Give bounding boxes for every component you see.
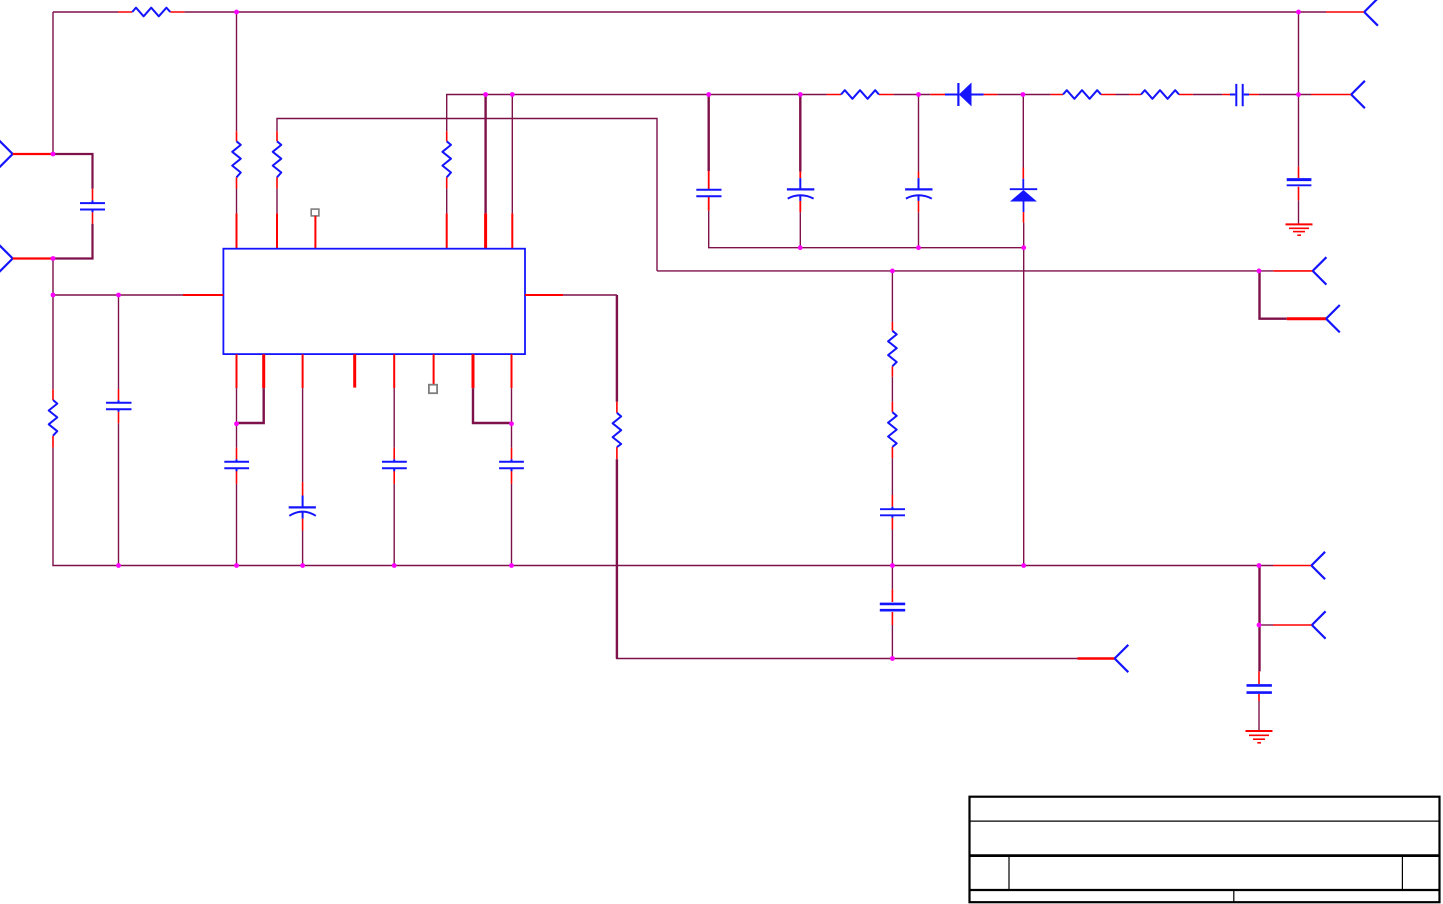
pin red thick IC bottom pin4 floating xyxy=(353,354,356,387)
node dot (118.5,565.5) xyxy=(116,563,121,568)
wire C4 bottom to rail corner xyxy=(709,211,801,248)
node dot (1298.5,94.5) xyxy=(1296,92,1301,97)
wire vertical x=1022.9 from net to D2 xyxy=(1022,95,1024,168)
title block line thick xyxy=(970,854,1440,857)
capacitor C10 at x=394.2 xyxy=(382,448,407,484)
capacitor C1 left xyxy=(80,189,105,224)
port P6 right xyxy=(1312,611,1326,638)
node dot (892.4,565.5) xyxy=(890,563,895,568)
wire corner x=446.7 start of net y=94.5 xyxy=(447,95,827,132)
terminal square bottom of IC pin6 xyxy=(429,385,437,394)
pin red IC right xyxy=(525,294,563,296)
pin red IC bottom pin3 xyxy=(302,354,304,388)
capacitor C9 polarized at x=302.6 xyxy=(289,482,316,530)
wire thick R9 down corner to net y=658.5 xyxy=(616,459,618,658)
wire stub y=625 xyxy=(1259,624,1273,626)
wire C9 down to rail xyxy=(302,531,304,566)
pin red to port P2 right y=94.5 xyxy=(1311,94,1351,96)
op-amp IC U1 body xyxy=(223,249,525,354)
node dot (236.5,12) xyxy=(234,10,239,15)
node dot (918.5,94.5) xyxy=(916,92,921,97)
node dot (1023.7,247.7) xyxy=(1021,245,1026,250)
node dot (53,154) xyxy=(51,152,56,157)
port J1 left upper xyxy=(0,140,13,167)
pin red IC bottom pin6 xyxy=(433,354,435,384)
resistor R7 horizontal y=94.5 xyxy=(1129,90,1193,99)
wire R2 to pin stub xyxy=(236,189,238,214)
pin red to port P5 y=565.5 xyxy=(1273,565,1311,567)
pin red to port P1 top right xyxy=(1326,11,1364,13)
wire x=892.4 from net y=270.9 to R10 xyxy=(891,271,893,322)
node dot (892.4,658.5) xyxy=(890,656,895,661)
wire thick pin7 L to node xyxy=(473,388,512,423)
title block divider v2 xyxy=(1401,856,1403,890)
node dot (1259,565.5) xyxy=(1257,563,1262,568)
pin wire red J2 xyxy=(13,257,53,259)
wire rail y=247.7 xyxy=(800,247,1024,249)
title block outer frame xyxy=(970,797,1440,903)
pin red thick IC bottom pin7 xyxy=(472,354,475,388)
capacitor C2 series horizontal y=94.5 xyxy=(1222,84,1259,106)
port P4 right xyxy=(1326,305,1340,332)
node dot (800.2,247.7) xyxy=(798,245,803,250)
wire C8 down to rail xyxy=(236,484,238,566)
pin red thick IC bottom pin2 xyxy=(262,354,265,388)
node dot (511.5,565.5) xyxy=(509,563,514,568)
capacitor C6 polarized at x=918.5 xyxy=(905,172,932,213)
node dot (800.3,94.5) xyxy=(798,92,803,97)
capacitor C11 below node x=511.5 xyxy=(499,424,524,484)
title block divider v1 xyxy=(1008,856,1010,890)
capacitor C7 at x=118.5 xyxy=(106,389,132,423)
resistor R11 vertical xyxy=(888,402,897,459)
node dot (53,258.5) xyxy=(51,256,56,261)
wire x=53 from J2 down xyxy=(52,259,54,296)
wire C1 bottom to node B xyxy=(53,224,93,259)
wire R3 to pin stub xyxy=(276,189,278,214)
wire IC right pin to corner x=617 xyxy=(563,294,617,296)
pin red IC top pin6 xyxy=(511,213,513,248)
wire D2 to junction and down to rail xyxy=(1023,223,1025,566)
capacitor C4 at x=708.7 xyxy=(696,171,721,211)
wire C14 down to ground xyxy=(1258,701,1260,731)
pin red to port P3 y=270.9 xyxy=(1273,270,1312,272)
ground GND1 xyxy=(1286,224,1313,235)
wire net y=658.5 xyxy=(616,658,1078,660)
wire R4 to pin stub xyxy=(446,189,448,214)
port J2 left lower xyxy=(0,245,13,272)
title block line row3 xyxy=(970,889,1440,891)
capacitor C5 polarized at x=800.3 xyxy=(787,172,814,213)
pin red IC top pin4 xyxy=(446,213,448,248)
node dot (512.3,94.5) xyxy=(510,92,515,97)
wire net y=94.5 segments xyxy=(893,94,1311,96)
wire C6 bottom to rail xyxy=(918,212,920,248)
wire R8 down to rail corner xyxy=(53,448,119,566)
ground rail y=565.5 xyxy=(119,565,1274,567)
node dot (511.5,423.8) xyxy=(509,421,514,426)
node dot (892.4,270.9) xyxy=(890,269,895,274)
wire x=236 from top net to R2 xyxy=(236,12,238,131)
node dot (485.6,94.5) xyxy=(483,92,488,97)
resistor R6 horizontal y=94.5 xyxy=(1050,90,1115,99)
pin red thick IC top pin5 xyxy=(484,213,487,248)
wire thick pin2 L to node xyxy=(237,388,264,423)
wire x=53 down to resistor R8 xyxy=(52,295,54,389)
wire vertical x=53 top-left xyxy=(52,12,54,154)
pin red thick to port P4 y=318.7 xyxy=(1287,317,1326,320)
wire C10 down to rail xyxy=(393,484,395,566)
pin red IC bottom pin1 xyxy=(236,354,238,388)
node dot (236.5,565.5) xyxy=(234,563,239,568)
wire thick from node y=270.9 down to y=318.7 xyxy=(1260,271,1287,319)
wire x=118.5 down to capacitor C7 xyxy=(118,295,120,389)
node dot (118.5,295) xyxy=(116,293,121,298)
node dot (1298.5,12) xyxy=(1296,10,1301,15)
pin red IC top pin3 xyxy=(314,216,316,249)
wire x=1259 node down to C14 xyxy=(1258,625,1260,671)
resistor R1 horizontal top-left xyxy=(118,8,184,17)
resistor R5 horizontal y=94.5 xyxy=(827,90,894,99)
capacitor C14 thick at x=1259 xyxy=(1247,671,1272,701)
wire C13 down to net y=658.5 xyxy=(891,625,893,659)
wire C11 down to rail xyxy=(511,484,513,566)
ground GND2 xyxy=(1246,731,1273,743)
wire vertical x=918.5 xyxy=(918,95,920,172)
node dot (1259,270.9) xyxy=(1257,269,1262,274)
node dot (918.5,247.7) xyxy=(916,245,921,250)
terminal square top of IC pin3 xyxy=(311,209,319,216)
resistor R9 vertical at x=617 xyxy=(613,402,622,460)
wire thick vertical x=617 xyxy=(616,295,618,402)
node dot (1259,625) xyxy=(1257,623,1262,628)
wire R11 down to C12 xyxy=(891,458,893,495)
wire pin5 down to C10 xyxy=(393,388,395,448)
capacitor C12 at x=892.4 xyxy=(880,495,905,530)
port P7 middle right xyxy=(1115,645,1129,672)
wire x=512.3 IC top pin6 to net xyxy=(511,95,513,214)
pin red to port P7 y=658.5 xyxy=(1078,657,1115,659)
wire C3 to ground xyxy=(1298,200,1300,224)
pin red IC top pin1 xyxy=(236,213,238,248)
wire corner x=277 net y=118.5 xyxy=(277,119,657,271)
pin red IC bottom pin5 xyxy=(393,354,395,388)
wire vertical thick x=708.7 xyxy=(708,95,710,172)
pin red to port P6 y=625 xyxy=(1273,624,1312,626)
node dot (236.5,423.8) xyxy=(234,421,239,426)
wire thick x=485.6 IC top pin5 to net xyxy=(484,95,486,214)
port P2 right xyxy=(1351,81,1365,108)
capacitor C8 below node x=236.5 xyxy=(224,424,249,484)
node dot (708.7,94.5) xyxy=(706,92,711,97)
wire net VCC top y=12 xyxy=(53,11,1326,13)
diode D2 vertical at x=1023 xyxy=(1010,168,1037,223)
pin red IC left xyxy=(183,294,223,296)
node dot (53,295) xyxy=(51,293,56,298)
title block divider v3 xyxy=(1233,890,1235,902)
wire vertical thick x=800.3 xyxy=(799,95,801,172)
resistor R4 vertical above IC pin4 xyxy=(442,131,451,188)
pin red IC bottom pin8 xyxy=(511,354,513,388)
wire node x=53 y=295 to IC left pin xyxy=(53,294,183,296)
capacitor C3 at x=1298.5 xyxy=(1287,167,1312,201)
wire C12 down to rail xyxy=(891,530,893,566)
resistor R10 vertical xyxy=(888,322,897,377)
wire net y=270.9 xyxy=(657,270,1273,272)
wire node A to C1 top xyxy=(53,154,93,189)
node dot (302.6,565.5) xyxy=(300,563,305,568)
resistor R2 vertical above IC pin1 xyxy=(232,131,241,188)
node dot (1022.9,94.5) xyxy=(1021,92,1026,97)
resistor R8 vertical left xyxy=(49,389,58,448)
wire pin1 down to node xyxy=(236,388,238,424)
resistor R3 vertical above IC pin2 xyxy=(273,131,282,188)
port P3 right xyxy=(1313,257,1327,284)
title block line row1 xyxy=(970,820,1440,822)
wire pin8 down to node xyxy=(511,388,513,424)
port P5 right xyxy=(1311,552,1325,579)
capacitor C13 thick at x=892.4 xyxy=(880,589,905,625)
diode D1 horizontal y=94.5 xyxy=(930,83,997,107)
node dot (394.2,565.5) xyxy=(392,563,397,568)
node dot (1023.7,565.5) xyxy=(1021,563,1026,568)
pin wire red J1 xyxy=(13,153,53,155)
wire C7 down to rail xyxy=(118,423,120,565)
wire C5 bottom to rail xyxy=(799,212,801,248)
port P1 top right xyxy=(1364,0,1378,26)
wire vertical x=1298.5 xyxy=(1298,12,1300,167)
wire R10 to R11 xyxy=(891,377,893,402)
wire x=892.4 rail down to C13 xyxy=(891,566,893,590)
wire pin3 down to C9 xyxy=(302,388,304,482)
pin red IC top pin2 xyxy=(276,213,278,248)
wire thick x=1259 rail down to node y=625 xyxy=(1258,566,1260,626)
